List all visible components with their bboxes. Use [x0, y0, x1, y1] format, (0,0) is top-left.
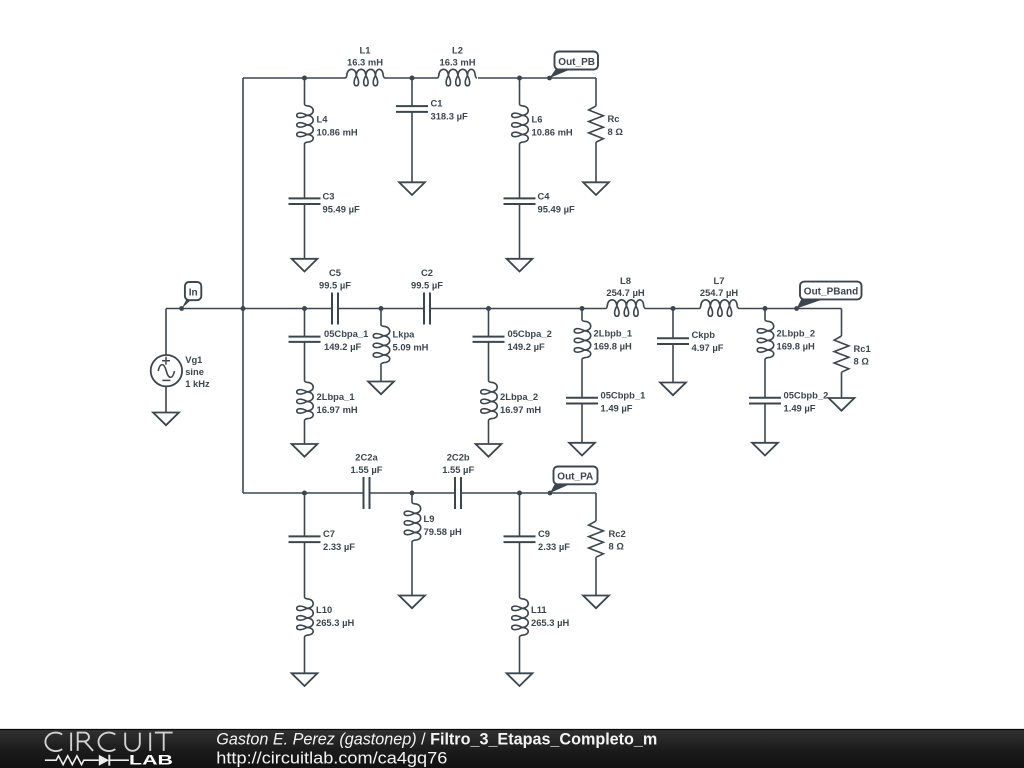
svg-text:C9: C9 [538, 528, 550, 539]
inductor L6 [512, 104, 528, 144]
wire L11-gnd [519, 637, 521, 673]
wire 2Lbpb_1-cap [581, 360, 583, 398]
wire C7-coil [304, 542, 306, 597]
inductor L2 [437, 69, 477, 86]
node B1 [302, 306, 307, 311]
capacitor 2C2b [454, 477, 456, 509]
node C1n [302, 491, 307, 496]
flag Out_PB [550, 69, 572, 78]
svg-text:2.33 µF: 2.33 µF [323, 541, 355, 552]
wire left trunk vertical [242, 78, 244, 493]
inductor 2Lbpb_2 [757, 320, 774, 360]
svg-text:99.5 µF: 99.5 µF [319, 279, 351, 290]
svg-text:Out_PBand: Out_PBand [804, 287, 858, 298]
capacitor 2C2a [363, 477, 365, 509]
capacitor C3 [289, 197, 321, 199]
svg-text:Rc2: Rc2 [609, 528, 626, 539]
svg-text:Ckpb: Ckpb [692, 329, 716, 340]
svg-text:L8: L8 [620, 275, 631, 286]
node B2 [379, 306, 384, 311]
ground below Lkpa [368, 382, 394, 395]
wire L6 top lead [519, 78, 521, 104]
wire C4-gnd [519, 204, 521, 259]
node A2 [410, 76, 415, 81]
svg-text:1.55 µF: 1.55 µF [442, 464, 474, 475]
inductor 2Lbpa_1 [297, 381, 314, 421]
wire Ckpb-gnd [672, 344, 674, 383]
wire 05Cbpa_2-coil [488, 342, 490, 381]
wire Ckpb top lead [672, 309, 674, 339]
svg-text:1.49 µF: 1.49 µF [784, 403, 816, 414]
wire Rc2-gnd [595, 557, 597, 595]
svg-text:L6: L6 [532, 114, 543, 125]
wire C3-gnd [304, 204, 306, 259]
wire bottom rail segment 3 [461, 492, 596, 494]
wire Rc1-gnd [841, 372, 843, 398]
wire L4-C3 [304, 144, 306, 199]
svg-text:254.7 µH: 254.7 µH [606, 287, 644, 298]
svg-text:05Cbpb_2: 05Cbpb_2 [784, 390, 829, 401]
capacitor C4 [504, 197, 536, 199]
svg-text:L10: L10 [316, 604, 332, 615]
inductor L1 [345, 69, 385, 86]
svg-text:16.97 mH: 16.97 mH [500, 404, 541, 415]
ground below L11 [507, 673, 533, 686]
ground below 05Cbpb_1 [569, 443, 595, 456]
svg-text:C5: C5 [329, 267, 341, 278]
node B0 trunk [241, 306, 246, 311]
wire bottom rail segment 1 [243, 492, 364, 494]
svg-text:Vg1: Vg1 [185, 354, 202, 365]
svg-text:8 Ω: 8 Ω [609, 540, 625, 551]
wire top rail segment 2 [385, 77, 437, 79]
voltage source Vg1 [151, 355, 182, 386]
capacitor 05Cbpa_1 [289, 336, 321, 338]
svg-text:265.3 µH: 265.3 µH [316, 617, 354, 628]
inductor L11 [512, 597, 528, 637]
svg-text:8 Ω: 8 Ω [854, 356, 870, 367]
logo CIRCUIT lettering [45, 733, 172, 751]
flag In [182, 300, 192, 309]
ground below L10 [292, 673, 318, 686]
node B5 [671, 306, 676, 311]
capacitor C9 [504, 535, 536, 537]
svg-text:16.3 mH: 16.3 mH [347, 57, 383, 68]
svg-text:2.33 µF: 2.33 µF [538, 541, 570, 552]
svg-text:LAB: LAB [129, 752, 173, 768]
wire Vg1 top lead [165, 309, 167, 356]
capacitor 05Cbpb_2 [749, 397, 781, 399]
svg-text:149.2 µF: 149.2 µF [508, 341, 545, 352]
ground below 2Lbpa_1 [292, 444, 318, 457]
wire 2Lbpb_2-cap [764, 360, 766, 398]
svg-text:C3: C3 [323, 190, 335, 201]
capacitor C5 [331, 293, 333, 325]
svg-text:169.8 µH: 169.8 µH [777, 340, 815, 351]
flag Out_PA [550, 484, 571, 493]
svg-text:2Lbpb_2: 2Lbpb_2 [777, 327, 816, 338]
wire 2Lbpb_1 top lead [581, 309, 583, 320]
svg-text:79.58 µH: 79.58 µH [424, 526, 462, 537]
node C3n [517, 491, 522, 496]
inductor L4 [297, 104, 314, 144]
svg-text:254.7 µH: 254.7 µH [700, 287, 738, 298]
wire 05Cbpa_1-coil [304, 342, 306, 381]
ground below Rc2 [583, 596, 609, 609]
inductor 2Lbpb_1 [574, 320, 591, 360]
svg-text:5.09 mH: 5.09 mH [393, 341, 429, 352]
svg-text:2Lbpb_1: 2Lbpb_1 [594, 327, 633, 338]
wire mid rail segment 1 [166, 308, 332, 310]
wire Rc-gnd [595, 142, 597, 182]
svg-text:L1: L1 [360, 44, 371, 55]
resistor Rc1 [834, 336, 849, 372]
inductor L9 [404, 502, 421, 542]
wire mid rail segment 3 [430, 308, 606, 310]
svg-text:L2: L2 [452, 44, 463, 55]
ground below 05Cbpb_2 [752, 443, 778, 456]
svg-text:318.3 µF: 318.3 µF [431, 110, 468, 121]
svg-text:169.8 µH: 169.8 µH [594, 340, 632, 351]
svg-text:In: In [189, 288, 198, 299]
svg-text:L9: L9 [424, 513, 435, 524]
svg-text:10.86 mH: 10.86 mH [317, 127, 358, 138]
svg-text:sine: sine [185, 366, 204, 377]
footer bar [0, 729, 1024, 768]
svg-text:05Cbpa_1: 05Cbpa_1 [324, 328, 368, 339]
capacitor C1 [396, 105, 428, 107]
wire mid rail segment 4 [646, 308, 700, 310]
ground below Rc1 [829, 398, 855, 411]
svg-text:2Lbpa_2: 2Lbpa_2 [500, 391, 538, 402]
ground below 2Lbpa_2 [476, 444, 502, 457]
node A1 [302, 76, 307, 81]
wire 05Cbpb_1-gnd [581, 404, 583, 443]
svg-text:2Lbpa_1: 2Lbpa_1 [317, 391, 355, 402]
svg-text:10.86 mH: 10.86 mH [532, 127, 573, 138]
inductor L8 [606, 300, 646, 317]
wire Rc2 top lead [595, 493, 597, 521]
wire bottom rail segment 2 [370, 492, 456, 494]
svg-text:8 Ω: 8 Ω [608, 126, 624, 137]
svg-text:4.97 µF: 4.97 µF [692, 342, 724, 353]
wire C9-coil [519, 542, 521, 597]
wire 05Cbpa_2 top lead [488, 309, 490, 337]
wire 2Lbpa_2-gnd [488, 421, 490, 445]
inductor Lkpa [373, 325, 390, 365]
capacitor C2 [423, 293, 425, 325]
svg-text:L4: L4 [317, 114, 329, 125]
wire Rc1 top lead [841, 309, 843, 337]
svg-text:Rc1: Rc1 [854, 343, 871, 354]
wire C1 top lead [411, 78, 413, 106]
svg-text:Out_PA: Out_PA [557, 472, 593, 483]
inductor 2Lbpa_2 [481, 381, 498, 421]
ground below C3 [292, 259, 318, 272]
wire 05Cbpa_1 top lead [304, 309, 306, 337]
wire L6-C4 [519, 144, 521, 199]
svg-text:05Cbpb_1: 05Cbpb_1 [601, 390, 646, 401]
flag Out_PBand [797, 299, 825, 309]
svg-text:99.5 µF: 99.5 µF [411, 279, 443, 290]
ground below L9 [399, 596, 425, 609]
wire Rc top lead [595, 78, 597, 106]
svg-text:16.3 mH: 16.3 mH [440, 57, 476, 68]
svg-text:95.49 µF: 95.49 µF [538, 203, 575, 214]
svg-text:16.97 mH: 16.97 mH [317, 404, 358, 415]
wire C7 top lead [304, 493, 306, 536]
svg-text:149.2 µF: 149.2 µF [324, 341, 361, 352]
ground below Vg1 [153, 413, 179, 426]
wire mid rail segment 5 [739, 308, 842, 310]
inductor L10 [297, 597, 314, 637]
wire top rail segment 1 [243, 77, 345, 79]
node B3 [486, 306, 491, 311]
logo resistor-diode symbol [45, 756, 129, 765]
resistor Rc [589, 106, 604, 142]
wire L9-gnd [411, 542, 413, 596]
svg-text:C4: C4 [538, 190, 551, 201]
svg-text:95.49 µF: 95.49 µF [323, 203, 360, 214]
svg-text:2C2b: 2C2b [447, 451, 470, 462]
wire L9 top lead [411, 493, 413, 502]
ground below C1 [399, 182, 425, 195]
svg-text:05Cbpa_2: 05Cbpa_2 [508, 328, 552, 339]
ground below Ckpb [660, 383, 686, 396]
node C2n [410, 491, 415, 496]
wire L4 top lead [304, 78, 306, 104]
svg-text:C2: C2 [421, 267, 433, 278]
svg-text:C1: C1 [431, 97, 443, 108]
capacitor Ckpb [657, 337, 689, 339]
wire C9 top lead [519, 493, 521, 536]
node A3 [517, 76, 522, 81]
svg-text:http://circuitlab.com/ca4gq76: http://circuitlab.com/ca4gq76 [216, 748, 447, 767]
svg-text:Out_PB: Out_PB [558, 57, 595, 68]
node B6 [763, 306, 768, 311]
wire Lkpa-gnd [380, 365, 382, 382]
svg-text:1 kHz: 1 kHz [185, 378, 210, 389]
ground below Rc [583, 182, 609, 195]
wire 2Lbpb_2 top lead [764, 309, 766, 320]
svg-text:1.55 µF: 1.55 µF [351, 464, 383, 475]
wire C1-gnd [411, 112, 413, 182]
ground below C4 [507, 259, 533, 272]
svg-text:2C2a: 2C2a [355, 451, 378, 462]
wire 05Cbpb_2-gnd [764, 404, 766, 443]
capacitor 05Cbpa_2 [473, 336, 505, 338]
inductor L7 [699, 300, 739, 317]
svg-text:Gaston E. Perez (gastonep) / F: Gaston E. Perez (gastonep) / Filtro_3_Et… [216, 731, 657, 749]
node B4 [580, 306, 585, 311]
resistor Rc2 [589, 521, 604, 557]
wire Vg1 bottom lead [165, 386, 167, 412]
svg-text:1.49 µF: 1.49 µF [601, 403, 633, 414]
svg-text:L11: L11 [531, 604, 547, 615]
wire L10-gnd [304, 637, 306, 673]
wire 2Lbpa_1-gnd [304, 421, 306, 445]
wire mid rail segment 2 [338, 308, 424, 310]
svg-text:C7: C7 [323, 528, 335, 539]
capacitor C7 [289, 535, 321, 537]
wire Lkpa top lead [380, 309, 382, 325]
svg-text:Lkpa: Lkpa [393, 328, 416, 339]
svg-text:Rc: Rc [608, 113, 620, 124]
capacitor 05Cbpb_1 [566, 397, 598, 399]
svg-text:265.3 µH: 265.3 µH [531, 617, 569, 628]
wire top rail segment 3 [478, 77, 596, 79]
svg-text:L7: L7 [714, 275, 725, 286]
